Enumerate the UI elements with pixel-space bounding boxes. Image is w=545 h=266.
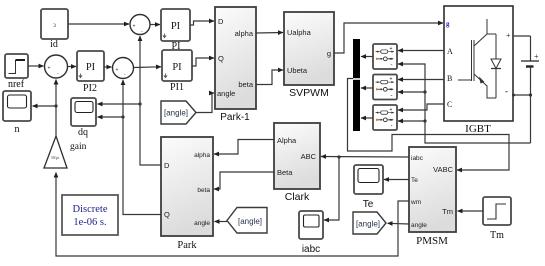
wire VM2 to mux bbox=[361, 87, 373, 89]
wire gain to S1 bottom bbox=[55, 80, 57, 137]
constant id bbox=[41, 9, 68, 50]
voltage measurement VM1 bbox=[373, 44, 397, 69]
svg-text:Tm: Tm bbox=[490, 230, 504, 241]
wire VM3 to mux bbox=[361, 117, 373, 119]
sum S2 (iq error) bbox=[113, 58, 134, 79]
transistor icon inside IGBT bbox=[458, 19, 496, 98]
junction rail VM3 bbox=[423, 119, 426, 122]
svg-text:[angle]: [angle] bbox=[164, 109, 188, 118]
svg-text:wm: wm bbox=[410, 199, 421, 206]
wire Clark Alpha to Park alpha bbox=[214, 140, 274, 155]
wire PI2 to S2 bbox=[104, 66, 112, 68]
svg-text:+: + bbox=[133, 24, 136, 30]
DC source battery bbox=[521, 36, 539, 143]
wire S3 to PI bbox=[150, 24, 160, 26]
svg-text:angle: angle bbox=[194, 220, 210, 227]
svg-text:+: + bbox=[48, 66, 51, 72]
svg-text:1e-06 s.: 1e-06 s. bbox=[73, 217, 106, 228]
wire mux to PMSM VABC bbox=[348, 79, 510, 171]
svg-text:Ubeta: Ubeta bbox=[287, 66, 308, 75]
svg-text:n: n bbox=[15, 124, 20, 135]
svg-text:+: + bbox=[506, 31, 511, 40]
svg-text:-: - bbox=[391, 63, 393, 69]
scope n bbox=[3, 91, 31, 135]
gain (rad/s to rpm) bbox=[44, 136, 87, 168]
svg-text:A: A bbox=[447, 47, 453, 56]
svg-text:angle: angle bbox=[217, 89, 235, 98]
svg-text:PI: PI bbox=[86, 62, 96, 73]
wire PMSM angle to Goto tag bbox=[388, 222, 410, 225]
wire From tag to Park angle bbox=[215, 221, 228, 223]
wire negative rail bbox=[398, 64, 531, 143]
wire IGBT B to VM2 bbox=[398, 79, 444, 81]
step nref bbox=[5, 54, 28, 90]
svg-text:Park: Park bbox=[177, 240, 197, 251]
svg-text:IGBT: IGBT bbox=[465, 123, 491, 135]
svg-text:PI: PI bbox=[172, 62, 182, 73]
svg-text:-: - bbox=[391, 124, 393, 130]
svg-text:beta: beta bbox=[238, 80, 253, 89]
wire IGBT C to VM3 bbox=[398, 104, 444, 110]
wire VM1 to mux bbox=[361, 56, 373, 58]
svg-text:Te: Te bbox=[363, 199, 374, 210]
svg-text:-: - bbox=[391, 93, 393, 99]
sum S1 (speed error) bbox=[45, 55, 68, 78]
svg-text:Q: Q bbox=[218, 54, 224, 63]
wire PMSM iabc to Clark ABC bbox=[321, 156, 409, 159]
svg-text:g: g bbox=[327, 49, 331, 58]
svg-text:PI1: PI1 bbox=[170, 82, 184, 93]
wire PMSM wm to gain (bottom feedback) bbox=[56, 173, 409, 257]
svg-text:iabc: iabc bbox=[411, 155, 424, 162]
wire nref to S1 bbox=[28, 65, 44, 67]
svg-text:D: D bbox=[218, 17, 224, 26]
wire tap to scope iabc bbox=[324, 157, 339, 220]
subsystem Clark (abc to alpha-beta) bbox=[274, 123, 320, 203]
junction rail VM2 bbox=[423, 90, 426, 93]
junction dq bottom tap bbox=[121, 115, 124, 118]
svg-text:g: g bbox=[446, 20, 450, 28]
PI controller PI1 (q axis) bbox=[162, 50, 192, 93]
wire id to S3 bbox=[68, 23, 129, 25]
wire battery negative to IGBT - bbox=[513, 94, 531, 96]
wire IGBT A to VM1 bbox=[398, 50, 444, 52]
wire Park-1 alpha to SVPWM Ualpha bbox=[256, 32, 283, 35]
wire Park-1 beta to SVPWM Ubeta bbox=[256, 70, 283, 85]
wire SVPWM g to IGBT g bbox=[334, 23, 443, 53]
wire S1 to PI2 bbox=[68, 66, 77, 68]
wire PI1 to Park-1 Q bbox=[192, 58, 214, 66]
voltage measurement VM3 bbox=[373, 105, 397, 130]
PI controller PI2 bbox=[77, 51, 104, 94]
voltage measurement VM2 bbox=[373, 75, 397, 100]
wire VM3 minus to rail bbox=[398, 120, 425, 122]
junction dq top tap bbox=[138, 102, 141, 105]
svg-text:dq: dq bbox=[78, 127, 88, 138]
svg-text:+: + bbox=[534, 52, 539, 61]
svg-text:+: + bbox=[116, 67, 119, 73]
wire tap to scope n bbox=[33, 105, 57, 107]
diode icon inside IGBT bbox=[491, 34, 501, 98]
svg-text:beta: beta bbox=[197, 187, 210, 194]
step Tm bbox=[483, 197, 511, 241]
svg-text:Te: Te bbox=[411, 177, 418, 184]
svg-text:30/pi: 30/pi bbox=[51, 155, 60, 160]
svg-text:id: id bbox=[50, 39, 58, 50]
IGBT inverter bridge bbox=[444, 6, 513, 135]
PI controller PI (d axis) bbox=[161, 9, 190, 52]
junction iabc tap bbox=[337, 155, 340, 158]
svg-text:Alpha: Alpha bbox=[277, 136, 297, 145]
subsystem Park (alpha-beta to dq) bbox=[161, 137, 213, 251]
wire tap to scope dq top bbox=[98, 103, 141, 105]
svg-text:PI2: PI2 bbox=[83, 83, 97, 94]
svg-text:alpha: alpha bbox=[194, 152, 210, 159]
svg-text:Park-1: Park-1 bbox=[220, 112, 250, 123]
svg-text:iabc: iabc bbox=[302, 244, 320, 255]
svg-text:[angle]: [angle] bbox=[356, 220, 380, 229]
svg-text:D: D bbox=[164, 161, 170, 170]
svg-text:SVPWM: SVPWM bbox=[289, 87, 329, 99]
subsystem PMSM bbox=[409, 147, 456, 247]
junction battery IGBT minus bbox=[529, 93, 532, 96]
svg-text:alpha: alpha bbox=[235, 29, 254, 38]
svg-text:Q: Q bbox=[164, 210, 170, 219]
junction n tap bbox=[54, 104, 57, 107]
svg-text:B: B bbox=[447, 74, 452, 83]
wire IGBT + to battery bbox=[513, 35, 531, 37]
wire Park Q to S2 bottom bbox=[123, 80, 161, 215]
svg-text:C: C bbox=[447, 100, 452, 109]
svg-text:Clark: Clark bbox=[285, 191, 310, 203]
svg-text:nref: nref bbox=[8, 79, 25, 90]
svg-text:PMSM: PMSM bbox=[416, 235, 448, 247]
svg-text:[angle]: [angle] bbox=[238, 217, 262, 226]
svg-text:PI: PI bbox=[171, 21, 181, 32]
svg-text:angle: angle bbox=[411, 222, 427, 229]
wire Clark Beta to Park beta bbox=[214, 172, 274, 189]
sum S3 (id error) bbox=[130, 15, 150, 35]
svg-text:Discrete: Discrete bbox=[73, 204, 108, 215]
From tag [angle] (to Park-1) bbox=[161, 101, 196, 124]
svg-text:3: 3 bbox=[53, 23, 56, 29]
wire Tm to PMSM Tm bbox=[458, 210, 484, 212]
svg-text:-: - bbox=[505, 86, 508, 96]
scope iabc bbox=[299, 211, 323, 255]
wire PI to Park-1 D bbox=[190, 21, 214, 25]
svg-text:gain: gain bbox=[70, 142, 87, 152]
wire Park D to S3 bottom bbox=[140, 36, 161, 165]
wire From tag to Park-1 angle bbox=[196, 93, 214, 113]
scope Te bbox=[354, 165, 383, 210]
Goto tag [angle] (from PMSM) bbox=[353, 212, 386, 234]
wire tap to scope dq bottom bbox=[98, 116, 124, 118]
subsystem SVPWM bbox=[284, 12, 334, 99]
mux (voltage bus) bbox=[353, 39, 360, 131]
Discrete solver annotation bbox=[62, 195, 118, 235]
From tag [angle] (to Park) bbox=[227, 208, 267, 234]
wire VM2 minus to rail bbox=[398, 91, 425, 93]
svg-text:Tm: Tm bbox=[442, 207, 453, 216]
svg-text:VABC: VABC bbox=[433, 165, 453, 174]
svg-text:Beta: Beta bbox=[277, 168, 293, 177]
wire S2 to PI1 bbox=[134, 66, 162, 69]
svg-text:Ualpha: Ualpha bbox=[287, 28, 312, 37]
svg-text:ABC: ABC bbox=[301, 152, 317, 161]
wire PMSM Te to scope Te bbox=[384, 179, 409, 181]
scope dq bbox=[71, 98, 96, 138]
subsystem Park-1 (dq to alpha-beta) bbox=[215, 7, 256, 123]
